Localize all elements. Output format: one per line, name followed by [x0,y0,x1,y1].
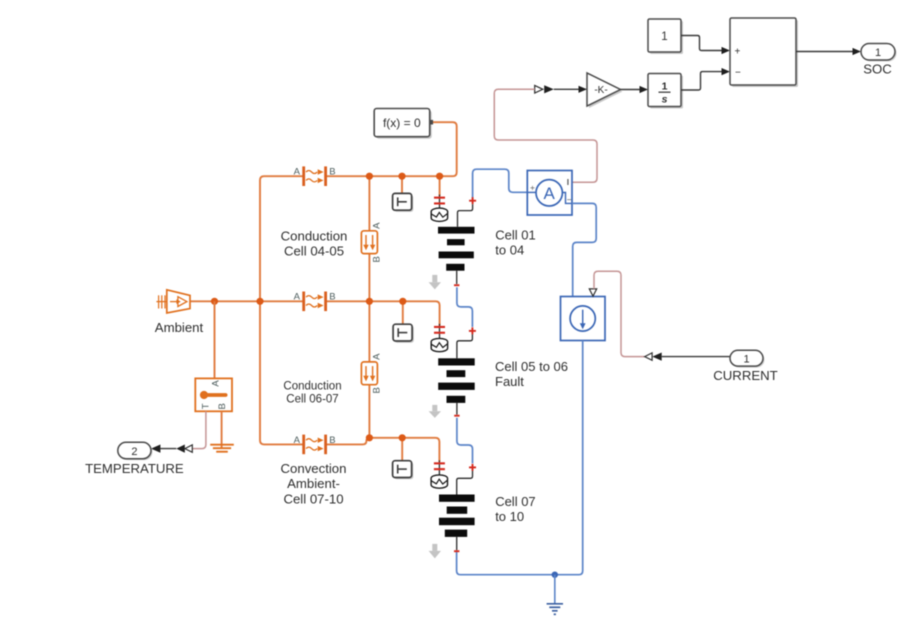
f(x)=0 solver block [374,109,433,139]
battery Cell 05 to 06 Fault [429,324,476,418]
temperature display block 3 [393,461,414,479]
wire battery 1 negative to battery 2 positive [457,287,473,327]
svg-text:Cell 05 to 06: Cell 05 to 06 [495,359,568,374]
positive terminal battery 1 [469,200,476,202]
svg-text:T: T [200,403,211,409]
wire gain to integrator [621,86,649,93]
junction node top row / vertical branch [366,173,373,180]
svg-text:B: B [329,435,335,446]
thermal reference ground [210,445,234,452]
junction node bottom row / vertical branch [366,434,373,441]
temperature display block 1 [393,193,414,212]
plates battery 2 [438,358,475,365]
svg-text:Ambient: Ambient [155,320,204,335]
temperature sensor block [195,378,232,411]
junction node bottom wire / ground [552,572,558,578]
physical signal wire sensor T to temperature outport [192,411,206,448]
current source control port (open arrow) [589,289,596,296]
svg-text:2: 2 [131,446,137,458]
heat flow arrow battery 3 [429,544,441,559]
svg-text:A: A [211,380,222,387]
svg-text:1: 1 [661,31,667,43]
svg-text:−: − [735,68,741,79]
gain block -K- [587,73,623,108]
wire battery 1 positive to ammeter + [473,169,528,198]
svg-text:+: + [530,183,535,193]
outport 2 TEMPERATURE with converter arrows [118,442,193,460]
svg-text:Cell 01: Cell 01 [495,227,535,242]
junction node middle row / T display 2 [399,298,406,305]
plates battery 1 [438,227,475,234]
svg-text:A: A [372,222,383,229]
positive terminal battery 3 [469,466,476,468]
svg-text:A: A [372,353,383,360]
temperature display block 2 [393,324,414,342]
wire bottom row right of convection block with jog down to battery 3 thermal port [327,438,440,462]
negative terminal battery 3 [456,537,458,550]
wire top row down to battery 1 thermal port [439,176,441,196]
wire top thermal row right of conduction block [327,175,440,177]
wire drop to temperature display block 3 [401,438,403,461]
svg-text:Cell 07: Cell 07 [495,494,535,509]
PS-Simulink converter arrows into gain [535,85,587,93]
wire constant to sum + input [681,36,730,55]
svg-text:1: 1 [662,81,668,93]
junction node bottom row / T display 3 [399,434,406,441]
cell cylinder icon battery 2 [431,338,447,345]
svg-text:CURRENT: CURRENT [713,368,777,383]
wire vertical conduction branch (block to row2) [368,254,370,302]
ammeter current sensor block [527,171,572,216]
svg-text:-K-: -K- [594,85,607,96]
thermal port marks battery 3 [438,460,440,474]
svg-text:f(x) = 0: f(x) = 0 [383,116,421,130]
svg-text:B: B [329,167,335,178]
svg-text:B: B [329,292,335,303]
svg-text:−: − [567,195,572,205]
wire ambient node down to temperature sensor port A [214,301,216,378]
battery Cell 07 to 10 [429,460,476,558]
inport 1 CURRENT with converter arrows [645,350,765,367]
svg-text:Fault: Fault [495,374,524,389]
conduction block Cell 06-07 (horizontal) [294,292,336,312]
wire sum to SOC outport [796,48,861,55]
convection block Ambient-Cell 07-10 (horizontal) [294,435,336,455]
thermal port marks battery 2 [439,324,441,339]
wire sensor port B down to thermal reference [221,411,223,448]
junction node ambient branch [211,298,218,305]
ambient temperature source block [156,290,190,313]
junction node trunk / middle row [256,298,263,305]
wire battery 2 negative to battery 3 positive [457,418,473,464]
wire integrator to sum - input [681,68,730,90]
controlled current source block [561,297,606,341]
heat flow arrow battery 1 [429,275,441,290]
svg-text:to 10: to 10 [495,509,524,524]
positive terminal battery 2 [469,330,476,332]
thermal port marks battery 1 [439,195,441,209]
negative terminal battery 1 [456,271,458,284]
physical signal wire CURRENT to control port [594,271,645,356]
svg-text:Convection: Convection [281,461,347,476]
svg-text:Conduction: Conduction [283,381,341,393]
conduction block vertical upper (rotated) [361,222,382,263]
svg-text:A: A [294,435,301,446]
physical signal wire ammeter I to gain [494,89,597,182]
cell cylinder icon battery 3 [431,475,447,482]
conduction block Cell 04-05 (horizontal) [294,166,336,186]
battery Cell 01 to 04 [429,195,477,290]
svg-text:TEMPERATURE: TEMPERATURE [85,461,184,476]
svg-text:SOC: SOC [863,61,892,76]
svg-text:I: I [567,177,569,187]
wire middle thermal row from ambient to conduction block [190,300,303,302]
svg-text:A: A [294,167,301,178]
conduction block vertical lower (rotated) [361,353,382,394]
electrical reference ground [547,575,563,615]
svg-text:Ambient-: Ambient- [287,476,340,491]
svg-text:to 04: to 04 [495,243,524,258]
wire middle row right of conduction block down to battery 2 thermal port [327,301,440,325]
integrator block 1/s [648,74,683,109]
svg-text:Cell 04-05: Cell 04-05 [284,244,344,259]
svg-text:1: 1 [743,353,749,365]
wire drop to temperature display block 2 [402,301,404,324]
heat flow arrow battery 2 [429,405,441,418]
wire current source bottom to battery string bottom [457,341,583,575]
wire vertical conduction branch top (row1 to block) [368,176,370,231]
svg-text:+: + [735,47,741,58]
sum (subtract) block [730,18,798,87]
cell cylinder icon battery 1 [431,208,447,215]
svg-text:1: 1 [875,47,881,59]
svg-text:A: A [544,184,556,203]
wire ammeter - to current source + [572,203,596,296]
svg-text:A: A [294,292,301,303]
wire drop to temperature display block 1 [401,176,403,193]
svg-text:s: s [662,94,668,106]
junction node top row / T display 1 [398,173,405,180]
svg-text:Cell 06-07: Cell 06-07 [286,394,338,406]
plates battery 3 [439,495,475,502]
wire vertical conduction branch 2 (row2 to block) [368,301,370,362]
outport 1 SOC [861,44,897,77]
svg-text:B: B [217,403,228,409]
wire vertical conduction branch 2 (block to bottom row) [368,385,370,438]
svg-text:Conduction: Conduction [281,229,348,244]
junction node top row / battery 1 port [436,173,443,180]
wire thermal trunk with top and bottom rows (left side) [260,176,303,444]
svg-text:B: B [372,256,383,262]
negative terminal battery 2 [456,403,458,415]
svg-text:B: B [372,387,383,393]
constant block value 1 [648,19,683,54]
wire f(x)=0 to top thermal row [433,122,457,176]
svg-text:Cell 07-10: Cell 07-10 [283,491,343,506]
junction node middle row / vertical branch [366,298,373,305]
